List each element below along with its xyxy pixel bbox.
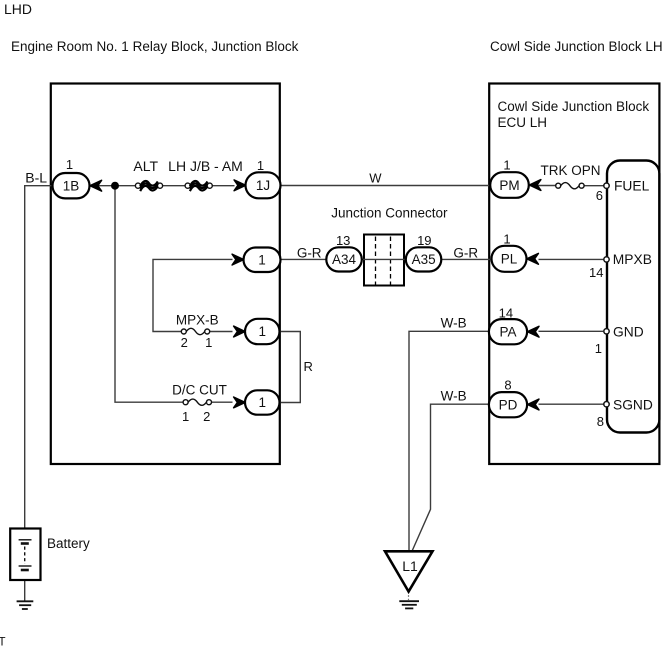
svg-text:13: 13 (336, 233, 350, 248)
svg-text:G-R: G-R (453, 245, 478, 260)
svg-text:PA: PA (499, 324, 516, 339)
svg-text:1: 1 (258, 252, 266, 267)
svg-text:ALT: ALT (133, 158, 158, 174)
svg-text:1: 1 (259, 324, 267, 339)
svg-text:Cowl Side Junction Block: Cowl Side Junction Block (498, 99, 650, 114)
svg-text:1: 1 (182, 409, 189, 424)
svg-text:R: R (304, 359, 313, 374)
svg-text:GND: GND (613, 324, 644, 339)
svg-text:ECU LH: ECU LH (498, 115, 548, 130)
svg-text:14: 14 (499, 305, 513, 320)
svg-text:LH J/B - AM: LH J/B - AM (168, 158, 243, 174)
svg-text:G-R: G-R (297, 245, 322, 260)
svg-text:PL: PL (501, 252, 518, 267)
svg-text:L1: L1 (402, 558, 418, 574)
svg-text:1B: 1B (63, 178, 80, 193)
svg-text:A34: A34 (332, 252, 357, 267)
svg-text:W-B: W-B (441, 315, 467, 330)
svg-text:6: 6 (596, 188, 603, 203)
svg-text:FUEL: FUEL (614, 179, 650, 194)
svg-text:8: 8 (504, 377, 511, 392)
svg-text:MPXB: MPXB (613, 252, 652, 267)
svg-text:1: 1 (259, 395, 267, 410)
svg-text:8: 8 (597, 414, 604, 429)
svg-text:LHD: LHD (4, 1, 32, 17)
svg-text:1: 1 (503, 232, 510, 247)
svg-text:Engine Room No. 1 Relay Block,: Engine Room No. 1 Relay Block, Junction … (11, 39, 299, 54)
svg-text:2: 2 (203, 409, 210, 424)
svg-text:B-L: B-L (25, 169, 47, 185)
svg-text:PD: PD (499, 397, 518, 412)
svg-text:Cowl Side Junction Block LH: Cowl Side Junction Block LH (490, 39, 663, 54)
svg-text:2: 2 (181, 335, 188, 350)
svg-text:A35: A35 (412, 252, 436, 267)
svg-text:MPX-B: MPX-B (176, 312, 219, 327)
svg-text:Battery: Battery (47, 536, 90, 551)
svg-text:T: T (0, 637, 6, 647)
svg-text:1: 1 (595, 341, 602, 356)
svg-text:1: 1 (257, 158, 264, 173)
svg-text:PM: PM (499, 178, 519, 193)
svg-text:19: 19 (417, 233, 431, 248)
svg-text:Junction Connector: Junction Connector (331, 206, 448, 221)
svg-text:TRK OPN: TRK OPN (540, 163, 600, 178)
svg-text:1J: 1J (256, 178, 270, 193)
svg-text:14: 14 (589, 265, 603, 280)
svg-text:W-B: W-B (441, 389, 467, 404)
svg-text:1: 1 (205, 335, 212, 350)
svg-text:W: W (369, 171, 382, 186)
svg-text:D/C CUT: D/C CUT (172, 383, 227, 398)
svg-text:SGND: SGND (613, 398, 653, 413)
svg-text:1: 1 (503, 158, 510, 173)
svg-text:1: 1 (66, 157, 73, 172)
